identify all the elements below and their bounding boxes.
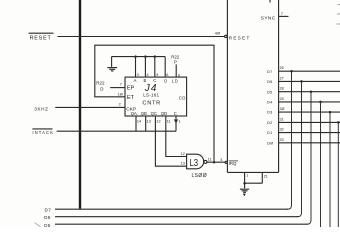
pin 26 D7 of U1: [267, 66, 340, 74]
ground (rail left end): [107, 57, 117, 71]
svg-text:6: 6: [166, 73, 168, 77]
pin 5 C of J4: [155, 57, 159, 78]
svg-text:CO: CO: [179, 96, 186, 101]
svg-text:QD: QD: [161, 111, 167, 116]
pin 1 VSS of U1: [245, 172, 249, 188]
wire D7 bus bottom: [55, 208, 288, 210]
svg-text:1: 1: [178, 119, 180, 123]
svg-text:32: 32: [280, 128, 284, 132]
svg-text:21: 21: [264, 175, 268, 179]
wire D3 drop to bus: [329, 111, 332, 228]
svg-text:EP: EP: [127, 86, 135, 92]
pin 11 QD of J4, wire to L3 pin 12: [166, 116, 187, 157]
svg-text:RESET: RESET: [229, 36, 251, 41]
svg-text:7: 7: [281, 12, 283, 16]
svg-text:IRQ: IRQ: [229, 161, 237, 166]
wire L3 pin 11 output to U1 IRQ: [207, 158, 225, 163]
resistor R22-P (pullup to LD pin 9): [171, 55, 180, 78]
svg-text:QA: QA: [131, 111, 137, 116]
wire INTACK to QA/QB/CLR: [57, 130, 176, 132]
svg-text:14: 14: [137, 119, 141, 123]
node RESET (left label with overbar): [29, 33, 54, 41]
svg-text:11: 11: [208, 158, 212, 162]
pin 4 IRQ bubble on U1: [225, 161, 238, 166]
pin 32 D1 of U1: [267, 128, 340, 136]
svg-text:29: 29: [280, 97, 284, 101]
wire IRQ net to ET pin 10 (left-up-right-down loop): [95, 45, 215, 163]
pin 12 QC of J4, wire to L3 pin 13: [155, 116, 186, 166]
wire D7 drop to bus: [287, 70, 293, 209]
wire D6 bus bottom: [55, 216, 298, 218]
svg-text:2: 2: [119, 102, 121, 106]
svg-text:D3: D3: [267, 111, 272, 115]
svg-text:D: D: [164, 79, 167, 84]
resistor R22-D (pullup to EP pin 7): [96, 80, 125, 91]
svg-text:33: 33: [280, 138, 284, 142]
svg-text:3: 3: [137, 73, 139, 77]
svg-text:13: 13: [147, 119, 151, 123]
node INTACK (label with overbar): [32, 129, 54, 135]
wire heavy vertical bus/fold line: [79, 0, 81, 209]
svg-text:LSØØ: LSØØ: [192, 173, 208, 179]
pin 29 D4 of U1: [267, 97, 340, 105]
pin 3 A of J4: [136, 57, 139, 78]
pin 6 D of J4: [165, 57, 168, 78]
svg-text:P: P: [174, 60, 177, 65]
svg-text:3KHZ: 3KHZ: [34, 106, 48, 111]
wire D5 drop to bus: [306, 90, 312, 224]
svg-text:28: 28: [280, 87, 284, 91]
svg-text:L3: L3: [190, 158, 199, 169]
svg-text:1: 1: [246, 173, 248, 177]
svg-text:26: 26: [280, 66, 284, 70]
junction dots on rail: [134, 55, 156, 58]
svg-text:D: D: [100, 86, 104, 91]
wire D2 drop to bus: [337, 121, 340, 227]
junction VSS: [243, 182, 246, 185]
pin 1 CLR of J4 (arrowed stub to INTACK): [175, 116, 181, 131]
svg-text:A: A: [134, 78, 137, 83]
nand gate L3 (LS00): [181, 152, 207, 179]
pin 21 VSS of U1: [245, 172, 268, 183]
ground (U1 VSS): [240, 189, 249, 195]
wire RESET to CPU pin 40: [58, 36, 225, 38]
svg-text:12: 12: [156, 119, 160, 123]
faint page-edge marks: [337, 5, 340, 25]
svg-text:5: 5: [156, 73, 158, 77]
svg-text:4: 4: [220, 158, 222, 162]
svg-text:LS-161: LS-161: [143, 93, 159, 98]
wire ABCD input rail: [112, 56, 166, 58]
speck mark bottom-left: [35, 223, 41, 228]
pin 31 D2 of U1: [267, 117, 340, 125]
svg-text:QC: QC: [151, 111, 157, 116]
svg-text:C: C: [153, 78, 156, 83]
pin 14 QA of J4: [136, 116, 141, 131]
svg-text:13: 13: [181, 161, 185, 165]
counter J4 (LS161) body: [125, 77, 187, 116]
svg-text:D5: D5: [267, 90, 272, 94]
pin 40 RES bubble on U1: [215, 30, 251, 40]
svg-text:D6: D6: [44, 215, 51, 220]
svg-text:1Ø: 1Ø: [118, 92, 123, 96]
pin 33 D0 of U1: [267, 138, 340, 146]
svg-text:9: 9: [178, 73, 180, 77]
wire stub at top edge: [269, 0, 271, 3]
svg-text:D4: D4: [267, 101, 272, 105]
wire D4 drop to bus: [319, 101, 322, 228]
svg-text:C: C: [174, 111, 177, 116]
svg-text:SYNC: SYNC: [261, 16, 276, 22]
pin 30 D3 of U1: [267, 107, 340, 115]
pin 13 QB of J4: [146, 116, 151, 131]
svg-text:INTACK: INTACK: [32, 130, 54, 135]
pin 27 D6 of U1: [267, 76, 340, 84]
svg-text:11: 11: [167, 119, 171, 123]
svg-text:RESET: RESET: [30, 36, 52, 42]
svg-text:ET: ET: [127, 95, 135, 101]
svg-text:4: 4: [147, 73, 149, 77]
wire 3KHZ to CKP pin 2: [55, 102, 125, 107]
svg-text:12: 12: [181, 152, 185, 156]
pin 7 SYNC of U1: [261, 12, 289, 21]
svg-text:D6: D6: [267, 80, 272, 84]
svg-text:D1: D1: [267, 131, 272, 135]
svg-text:D5: D5: [44, 223, 51, 227]
wire D5 bus bottom: [55, 223, 308, 225]
CPU U1 (6502, partial box): [227, 0, 278, 172]
svg-text:DØ: DØ: [267, 141, 273, 145]
svg-text:D7: D7: [267, 70, 272, 74]
svg-text:CNTR: CNTR: [142, 101, 161, 107]
svg-text:27: 27: [280, 76, 284, 80]
svg-text:B: B: [144, 78, 147, 83]
pin 28 D5 of U1: [267, 87, 340, 95]
svg-text:7: 7: [120, 82, 122, 86]
svg-text:R22: R22: [96, 80, 105, 85]
wire D6 drop to bus: [297, 80, 303, 217]
pin 4 B of J4: [145, 57, 148, 78]
svg-text:4Ø: 4Ø: [215, 30, 220, 35]
svg-text:D7: D7: [45, 207, 52, 212]
svg-text:LD: LD: [172, 79, 179, 84]
svg-text:D2: D2: [267, 121, 272, 125]
svg-text:3Ø: 3Ø: [280, 107, 285, 111]
svg-text:QB: QB: [141, 111, 147, 116]
svg-text:31: 31: [280, 117, 284, 121]
